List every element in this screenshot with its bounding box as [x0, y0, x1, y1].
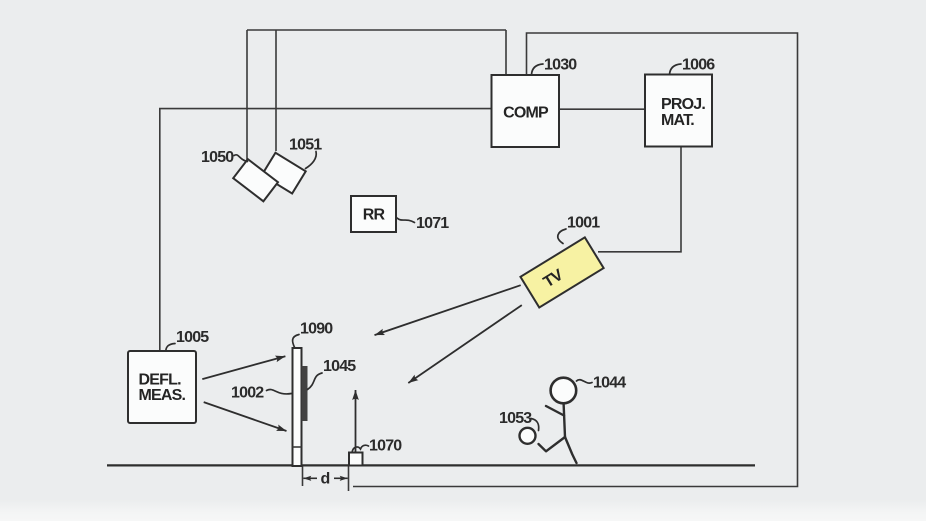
person left leg: [539, 437, 566, 451]
box DEFL.MEAS.: [128, 351, 196, 423]
leader 1002: [267, 390, 292, 394]
box 1070: [349, 453, 363, 466]
leader 1005: [166, 344, 175, 352]
ball 1053: [520, 428, 536, 444]
box RR: [351, 196, 396, 232]
svg-text:1071: 1071: [416, 215, 449, 232]
svg-text:MEAS.: MEAS.: [139, 387, 186, 404]
projector 1050: [233, 159, 278, 201]
screen divider: [293, 446, 302, 448]
svg-text:COMP: COMP: [503, 105, 549, 122]
leader 1044: [577, 380, 593, 383]
svg-text:DEFL.: DEFL.: [139, 372, 182, 389]
person 1044 head: [551, 378, 577, 404]
svg-text:RR: RR: [363, 207, 386, 224]
person arm: [546, 406, 564, 416]
svg-text:1050: 1050: [201, 149, 234, 166]
leader 1001: [558, 229, 566, 244]
person body: [564, 404, 565, 438]
leader 1045: [308, 373, 323, 390]
dimension d arrows: [303, 477, 317, 479]
arrow TV to screen lower: [408, 305, 522, 383]
svg-text:1045: 1045: [323, 358, 356, 375]
svg-text:1070: 1070: [369, 438, 402, 455]
wire room top-left wall: [160, 109, 492, 351]
svg-text:1053: 1053: [499, 410, 532, 427]
svg-text:1090: 1090: [300, 321, 333, 338]
TV 1001: [520, 237, 603, 307]
wire COMP to PROJ.MAT.: [559, 108, 645, 110]
leader 1051: [306, 152, 317, 169]
svg-text:MAT.: MAT.: [661, 112, 694, 129]
wire top-left bus: [247, 30, 506, 160]
leader 1070: [352, 445, 369, 452]
svg-text:1005: 1005: [176, 329, 209, 346]
svg-text:d: d: [321, 471, 330, 488]
arrow DEFL.MEAS. to screen bottom: [204, 402, 287, 431]
arrow up from 1070: [355, 390, 357, 452]
svg-text:1044: 1044: [593, 375, 626, 392]
screen 1090: [293, 348, 302, 466]
bottom light band: [0, 500, 926, 521]
dimension extension lines: [303, 466, 349, 491]
ground line: [107, 464, 755, 466]
arrow TV to screen upper: [375, 285, 521, 335]
svg-text:PROJ.: PROJ.: [661, 96, 705, 113]
projector 1051: [262, 153, 306, 194]
person right leg: [565, 437, 577, 463]
leader 1090: [293, 335, 299, 348]
arrow DEFL.MEAS. to screen top: [202, 356, 285, 379]
leader 1006: [670, 64, 682, 75]
svg-text:1051: 1051: [289, 137, 322, 154]
leader 1071: [397, 218, 415, 223]
wire PROJ.MAT. to TV: [598, 147, 681, 252]
svg-text:1001: 1001: [567, 215, 600, 232]
svg-text:1030: 1030: [544, 57, 577, 74]
leader 1050: [234, 155, 248, 162]
leader 1053: [531, 419, 539, 431]
leader 1030: [532, 64, 544, 75]
wire top-right bus: [353, 33, 798, 487]
sensor strip 1045: [302, 366, 308, 421]
svg-text:1002: 1002: [231, 385, 264, 402]
box PROJ.MAT.: [645, 75, 712, 147]
svg-text:1006: 1006: [682, 57, 715, 74]
box COMP: [492, 75, 560, 147]
